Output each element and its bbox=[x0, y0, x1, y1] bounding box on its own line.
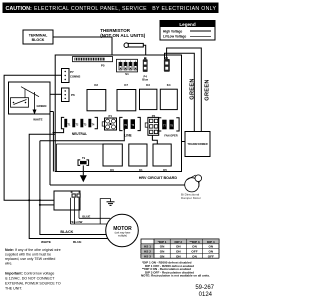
svg-text:DIP 4: DIP 4 bbox=[207, 240, 215, 244]
svg-text:HS 2: HS 2 bbox=[144, 250, 151, 254]
svg-text:BLACK: BLACK bbox=[60, 230, 73, 234]
svg-text:GREEN: GREEN bbox=[189, 78, 195, 99]
svg-text:K7: K7 bbox=[124, 83, 128, 87]
svg-text:(NOT ON ALL UNITS): (NOT ON ALL UNITS) bbox=[100, 33, 145, 38]
svg-text:P6: P6 bbox=[71, 93, 75, 97]
svg-text:EXTERNAL POWER SOURCE TO: EXTERNAL POWER SOURCE TO bbox=[5, 282, 61, 286]
svg-text:TRANSFORMER: TRANSFORMER bbox=[187, 142, 207, 146]
svg-text:K1: K1 bbox=[139, 168, 143, 172]
svg-text:ON: ON bbox=[208, 245, 213, 249]
svg-text:Legend: Legend bbox=[179, 22, 196, 27]
svg-text:GREEN: GREEN bbox=[37, 104, 47, 108]
svg-text:COMMS: COMMS bbox=[70, 74, 81, 78]
svg-text:Important: Control low voltage: Important: Control low voltage bbox=[5, 272, 54, 276]
svg-text:CAUTION:: CAUTION: bbox=[6, 6, 33, 12]
svg-text:Note: If any of the othe origi: Note: If any of the othe original wire bbox=[5, 248, 61, 252]
svg-text:Damper Motor: Damper Motor bbox=[181, 196, 201, 200]
svg-text:59-267: 59-267 bbox=[195, 285, 214, 291]
svg-text:BLUE: BLUE bbox=[73, 240, 81, 244]
svg-text:TERMINAL: TERMINAL bbox=[29, 33, 48, 37]
svg-text:is 12VAC. DO NOT CONNECT: is 12VAC. DO NOT CONNECT bbox=[5, 277, 55, 281]
svg-text:DIP 2: DIP 2 bbox=[174, 240, 182, 244]
svg-text:GREEN: GREEN bbox=[204, 79, 210, 100]
svg-text:HS 3: HS 3 bbox=[144, 254, 151, 258]
svg-text:replaced, use only TEW certifi: replaced, use only TEW certified bbox=[5, 257, 55, 261]
svg-text:HRV CIRCUIT BOARD: HRV CIRCUIT BOARD bbox=[139, 176, 178, 180]
svg-text:multiple): multiple) bbox=[118, 235, 127, 238]
svg-text:ON: ON bbox=[192, 254, 197, 258]
svg-text:ON: ON bbox=[176, 245, 181, 249]
svg-text:**DIP 3: **DIP 3 bbox=[189, 240, 199, 244]
svg-text:ON: ON bbox=[160, 245, 165, 249]
svg-text:*DIP 1: *DIP 1 bbox=[158, 240, 167, 244]
svg-text:ON: ON bbox=[208, 250, 213, 254]
svg-text:ON: ON bbox=[192, 245, 197, 249]
svg-text:BLOCK: BLOCK bbox=[32, 38, 45, 42]
svg-text:P7: P7 bbox=[70, 70, 74, 74]
svg-text:K5: K5 bbox=[163, 168, 167, 172]
svg-text:NOTE: Recirculation is not ava: NOTE: Recirculation is not available on … bbox=[141, 274, 210, 278]
svg-text:WHITE: WHITE bbox=[33, 118, 42, 122]
svg-text:THE UNIT.: THE UNIT. bbox=[5, 287, 22, 291]
svg-text:LV/Low Voltage: LV/Low Voltage bbox=[163, 35, 186, 39]
svg-text:WHITE: WHITE bbox=[41, 240, 51, 244]
svg-text:BLUE: BLUE bbox=[82, 214, 90, 218]
svg-text:HS 1: HS 1 bbox=[144, 245, 151, 249]
svg-text:K4: K4 bbox=[167, 83, 171, 87]
svg-text:K6: K6 bbox=[110, 168, 114, 172]
svg-text:0124: 0124 bbox=[199, 292, 213, 298]
svg-text:YELLOW: YELLOW bbox=[70, 220, 83, 224]
svg-text:NEUTRAL: NEUTRAL bbox=[72, 132, 87, 136]
svg-text:K2: K2 bbox=[94, 83, 98, 87]
svg-text:OFF: OFF bbox=[208, 254, 214, 258]
svg-text:ELECTRICAL CONTROL PANEL, SERV: ELECTRICAL CONTROL PANEL, SERVICE BY ELE… bbox=[34, 6, 216, 12]
svg-text:P5: P5 bbox=[101, 63, 105, 67]
svg-text:OFF: OFF bbox=[191, 250, 197, 254]
svg-text:S1: S1 bbox=[125, 72, 129, 76]
svg-text:Blue: Blue bbox=[142, 78, 148, 82]
svg-text:wire.: wire. bbox=[5, 261, 12, 265]
svg-text:FAN OPER: FAN OPER bbox=[164, 133, 177, 137]
svg-text:LINE: LINE bbox=[124, 133, 131, 137]
svg-text:ON: ON bbox=[176, 254, 181, 258]
svg-text:ON: ON bbox=[176, 250, 181, 254]
svg-text:K3: K3 bbox=[146, 83, 150, 87]
svg-text:ON: ON bbox=[160, 250, 165, 254]
svg-text:High Voltage: High Voltage bbox=[163, 29, 182, 33]
svg-text:supplied with the unit must be: supplied with the unit must be bbox=[5, 252, 51, 256]
svg-text:ON: ON bbox=[160, 254, 165, 258]
svg-text:P1: P1 bbox=[108, 114, 112, 118]
